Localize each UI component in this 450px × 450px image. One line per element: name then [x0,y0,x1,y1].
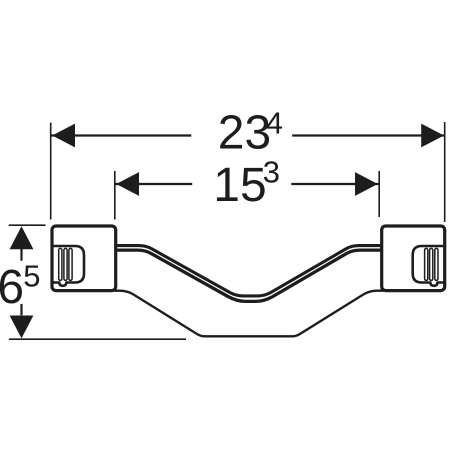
right clamp detail housing [413,246,445,286]
dimension line 6.5 lower stub [20,304,22,315]
left clamp detail housing [53,246,84,286]
dimension line 23.4 left segment [52,134,192,136]
left clamp ridge 3 [69,248,72,280]
arrowhead down of dim 6.5 [10,316,34,339]
right block [382,226,445,291]
left clamp ridge 1 [59,248,62,280]
extension line top of dim 6.5 [9,224,46,226]
extension line left of dim 23.4 [50,123,52,220]
svg-text:234: 234 [218,106,283,160]
right clamp ridge 1 [425,248,428,280]
extension line right of dim 23.4 [444,122,446,222]
extension line left of dim 15.3 [114,171,116,220]
arrowhead right of dim 23.4 [421,124,444,148]
dimension line 6.5 upper stub [20,249,22,261]
arrowhead left of dim 23.4 [52,124,75,148]
svg-text:65: 65 [0,258,41,314]
arrowhead left of dim 15.3 [116,172,139,196]
arrowhead right of dim 15.3 [355,172,378,196]
dimension line 23.4 right segment [292,134,444,136]
svg-text:153: 153 [213,155,280,213]
extension line bottom of dim 6.5 [9,338,186,340]
right clamp ridge 3 [435,248,438,280]
dimension line 15.3 left segment [116,183,193,185]
dimension line 15.3 right segment [291,183,378,185]
right clamp ridge 2 [430,248,433,280]
extension line right of dim 15.3 [378,171,380,217]
strap lower line [113,250,384,301]
left block [52,226,116,291]
strap upper line [113,246,384,296]
arrowhead up of dim 6.5 [10,226,34,249]
bottom V edge of bracket [113,291,384,337]
left clamp ridge 2 [64,248,67,280]
